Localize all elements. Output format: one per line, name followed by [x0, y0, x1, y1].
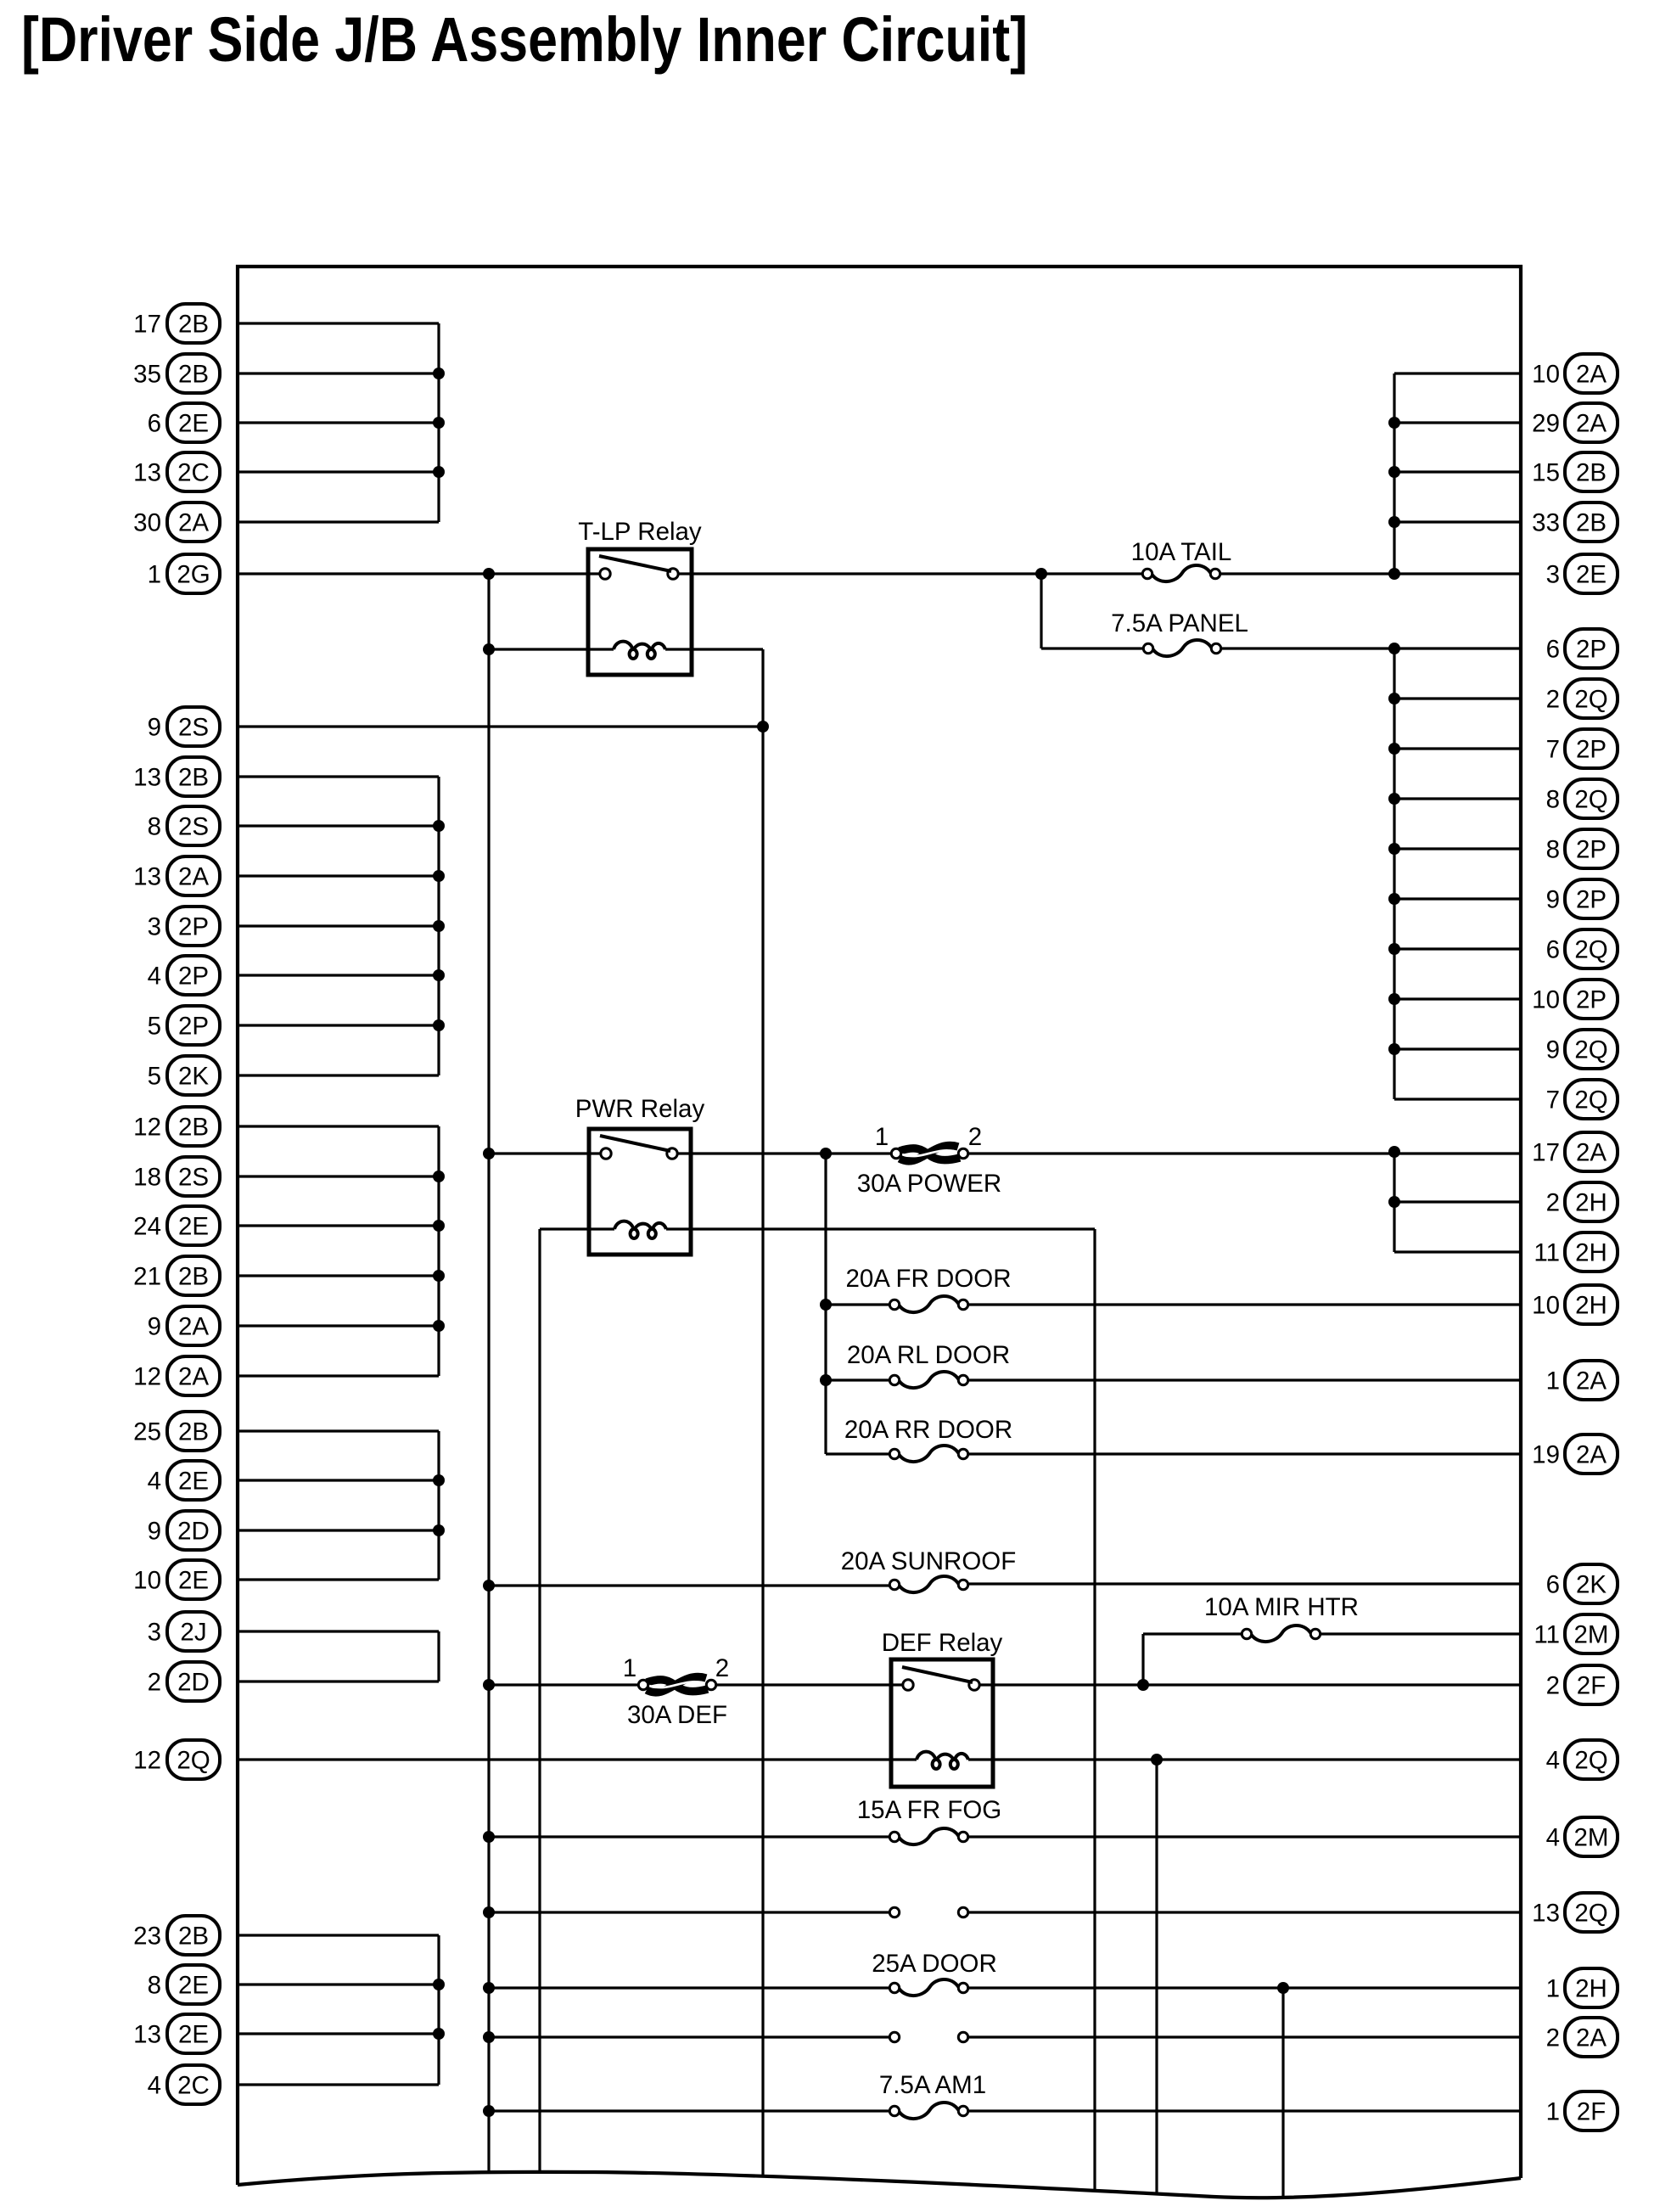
relay PWR Relay	[575, 1095, 705, 1255]
svg-text:9: 9	[1546, 1036, 1560, 1064]
svg-text:13: 13	[133, 863, 161, 891]
wire group F pin rows	[238, 1935, 439, 2085]
wire 25A DOOR row right	[968, 1986, 1521, 1989]
svg-text:8: 8	[148, 813, 161, 841]
svg-text:9: 9	[148, 1518, 161, 1546]
svg-text:2P: 2P	[178, 963, 209, 991]
node group A bus junctions	[433, 368, 445, 478]
svg-text:2H: 2H	[1575, 1292, 1607, 1320]
node junction MIR HTR tap	[1137, 1679, 1149, 1691]
svg-text:1: 1	[623, 1654, 636, 1682]
svg-text:12: 12	[133, 1363, 161, 1391]
svg-text:15A FR FOG: 15A FR FOG	[857, 1796, 1002, 1824]
svg-text:2A: 2A	[1576, 2024, 1607, 2052]
svg-text:6: 6	[1546, 936, 1560, 964]
fuse 20A RR DOOR	[844, 1416, 1012, 1462]
svg-text:2S: 2S	[178, 813, 209, 841]
wire T-LP relay output to TAIL fuse	[678, 572, 1142, 575]
node group B bus junctions	[433, 820, 445, 1031]
wire group C bus	[437, 1126, 440, 1376]
node 30 (2A) left pin	[133, 502, 220, 542]
svg-text:2Q: 2Q	[1574, 1036, 1607, 1064]
node 8 (2P) right pin	[1546, 829, 1618, 868]
svg-text:33: 33	[1532, 509, 1560, 537]
svg-text:2P: 2P	[1576, 636, 1607, 664]
svg-text:2Q: 2Q	[1574, 936, 1607, 964]
node junction VB1 FR FOG	[483, 1831, 495, 1843]
svg-text:17: 17	[133, 311, 161, 339]
node 24 (2E) left pin	[133, 1206, 220, 1245]
svg-text:2A: 2A	[178, 863, 209, 891]
svg-text:2Q: 2Q	[1574, 786, 1607, 814]
wire FR FOG row right	[968, 1835, 1521, 1838]
svg-text:30: 30	[133, 509, 161, 537]
fuse 7.5A AM1	[879, 2071, 986, 2119]
node junction 9 (2S) to VB3	[757, 721, 769, 733]
node 8 (2Q) right pin	[1546, 779, 1618, 818]
node junction T-LP coil tap (x576 y765)	[483, 643, 495, 655]
svg-text:1: 1	[1546, 1975, 1560, 2003]
svg-text:2C: 2C	[177, 459, 210, 487]
node 7 (2P) right pin	[1546, 729, 1618, 768]
wire DEF coil to 4 (2Q)	[968, 1758, 1521, 1760]
node junction PANEL right bus	[1388, 643, 1400, 654]
node 4 (2C) left pin	[148, 2065, 220, 2104]
node 35 (2B) left pin	[133, 354, 220, 393]
svg-text:2S: 2S	[178, 1164, 209, 1192]
node 17 (2A) right pin	[1532, 1132, 1618, 1171]
node 13 (2E) left pin	[133, 2014, 220, 2053]
svg-text:4: 4	[148, 1468, 161, 1496]
svg-text:2A: 2A	[1576, 1441, 1607, 1469]
wire 12 (2Q) row to DEF coil	[238, 1758, 917, 1760]
node 11 (2H) right pin	[1534, 1232, 1618, 1272]
svg-text:2B: 2B	[178, 764, 209, 792]
wire FR DOOR row left	[826, 1303, 889, 1305]
node 1 (2G) left pin	[148, 554, 220, 593]
svg-text:11: 11	[1534, 1239, 1560, 1267]
node group C bus junctions	[433, 1171, 445, 1332]
wire FR DOOR row right	[968, 1303, 1521, 1305]
svg-text:5: 5	[148, 1013, 161, 1041]
wire bus VB1 (x576)	[487, 574, 490, 2174]
svg-text:30A POWER: 30A POWER	[857, 1170, 1002, 1198]
wire 30A DEF link to DEF relay	[716, 1683, 903, 1686]
wire SUNROOF row right	[968, 1582, 1521, 1585]
svg-text:4: 4	[1546, 1824, 1560, 1852]
svg-text:21: 21	[133, 1263, 161, 1291]
node 1 (2F) right pin	[1546, 2091, 1618, 2131]
fusible link 30A DEF	[623, 1654, 729, 1729]
svg-text:2C: 2C	[177, 2072, 210, 2100]
node 7 (2Q) right pin	[1546, 1080, 1618, 1119]
svg-text:13: 13	[133, 459, 161, 487]
node junction TAIL right bus	[1388, 568, 1400, 580]
svg-text:3: 3	[148, 913, 161, 941]
node group D bus junctions	[433, 1474, 445, 1536]
node right bus B junctions	[1388, 693, 1400, 1055]
wire group E pin rows	[238, 1631, 439, 1681]
node 25 (2B) left pin	[133, 1412, 220, 1451]
wire 9 (2S) row	[238, 725, 763, 727]
node right bus A junctions	[1388, 417, 1400, 528]
wire right bus B	[1393, 648, 1395, 1099]
node 21 (2B) left pin	[133, 1256, 220, 1295]
wire bus VB3 (x899)	[761, 649, 764, 2176]
svg-text:1: 1	[875, 1123, 889, 1151]
node junction VB1 top (x576 y676)	[483, 568, 495, 580]
node 10 (2P) right pin	[1532, 980, 1618, 1019]
svg-text:2: 2	[1546, 2024, 1560, 2052]
svg-text:2P: 2P	[178, 913, 209, 941]
wire bus VB7 (x1512)	[1281, 1988, 1284, 2198]
node 33 (2B) right pin	[1532, 502, 1618, 542]
svg-text:4: 4	[148, 963, 161, 991]
svg-text:20A SUNROOF: 20A SUNROOF	[841, 1547, 1017, 1575]
node 9 (2D) left pin	[148, 1511, 220, 1550]
node junction door-bus tap (x973)	[820, 1148, 832, 1159]
wire right rows group A	[1394, 373, 1521, 522]
svg-text:2A: 2A	[1576, 361, 1607, 389]
svg-text:12: 12	[133, 1114, 161, 1142]
node 13 (2B) left pin	[133, 757, 220, 796]
svg-text:15: 15	[1532, 459, 1560, 487]
svg-text:2: 2	[968, 1123, 982, 1151]
svg-text:17: 17	[1532, 1139, 1560, 1167]
svg-text:25A DOOR: 25A DOOR	[872, 1950, 997, 1978]
svg-text:2D: 2D	[177, 1669, 210, 1697]
svg-text:2Q: 2Q	[1574, 1747, 1607, 1775]
node 23 (2B) left pin	[133, 1916, 220, 1955]
svg-text:2M: 2M	[1574, 1824, 1609, 1852]
svg-text:[Driver Side J/B Assembly Inne: [Driver Side J/B Assembly Inner Circuit]	[21, 4, 1028, 75]
node junction VB1 DEF row	[483, 1679, 495, 1691]
wire PWR coil left to VB2	[540, 1227, 614, 1230]
svg-text:10: 10	[1532, 361, 1560, 389]
svg-text:20A RL DOOR: 20A RL DOOR	[847, 1341, 1010, 1369]
wire T-LP coil left	[489, 648, 614, 650]
svg-text:1: 1	[1546, 2098, 1560, 2126]
node 19 (2A) right pin	[1532, 1434, 1618, 1474]
node 29 (2A) right pin	[1532, 403, 1618, 442]
node 13 (2C) left pin	[133, 452, 220, 491]
svg-text:13: 13	[133, 2021, 161, 2049]
wire right bus C	[1393, 1152, 1395, 1252]
wire right bus A	[1393, 373, 1395, 574]
svg-text:20A FR DOOR: 20A FR DOOR	[845, 1265, 1011, 1293]
node junction VB1 sunroof	[483, 1580, 495, 1592]
wire RR DOOR row right	[968, 1452, 1521, 1455]
svg-text:10: 10	[133, 1567, 161, 1595]
node 13 (2A) left pin	[133, 856, 220, 895]
svg-text:3: 3	[1546, 561, 1560, 589]
wire RL DOOR row right	[968, 1378, 1521, 1381]
svg-text:11: 11	[1534, 1621, 1560, 1649]
fuse 15A FR FOG	[857, 1796, 1002, 1844]
wire RR DOOR row left	[826, 1452, 889, 1455]
wire PANEL row right	[1221, 647, 1521, 649]
node 8 (2S) left pin	[148, 806, 220, 845]
node 3 (2J) left pin	[148, 1612, 220, 1651]
svg-text:2K: 2K	[1576, 1571, 1607, 1599]
node 11 (2M) right pin	[1534, 1614, 1618, 1653]
svg-text:7.5A AM1: 7.5A AM1	[879, 2071, 986, 2099]
node 2 (2A) right pin	[1546, 2018, 1618, 2057]
wire DEF row to 30A DEF link	[489, 1683, 638, 1686]
svg-text:35: 35	[133, 361, 161, 389]
svg-text:24: 24	[133, 1213, 161, 1241]
svg-text:2B: 2B	[178, 1263, 209, 1291]
node door bus junctions	[820, 1299, 832, 1386]
svg-text:2B: 2B	[178, 1114, 209, 1142]
wire right rows group B	[1394, 699, 1521, 1099]
fuse 20A FR DOOR	[845, 1265, 1011, 1312]
svg-text:6: 6	[1546, 1571, 1560, 1599]
wire DEF relay output to 2 (2F)	[979, 1683, 1521, 1686]
svg-text:2E: 2E	[178, 1972, 209, 2000]
svg-text:2P: 2P	[1576, 736, 1607, 764]
svg-text:2B: 2B	[178, 1923, 209, 1951]
svg-text:2A: 2A	[178, 509, 209, 537]
node 4 (2E) left pin	[148, 1461, 220, 1500]
node 12 (2Q) left pin	[133, 1740, 220, 1779]
svg-text:2Q: 2Q	[1574, 1900, 1607, 1928]
svg-text:20A RR DOOR: 20A RR DOOR	[844, 1416, 1012, 1444]
fuse 20A SUNROOF	[841, 1547, 1017, 1592]
svg-text:10A TAIL: 10A TAIL	[1131, 538, 1232, 566]
node 17 (2B) left pin	[133, 304, 220, 343]
svg-text:2B: 2B	[1576, 509, 1607, 537]
svg-text:1: 1	[1546, 1367, 1560, 1395]
svg-text:2: 2	[1546, 1189, 1560, 1217]
svg-text:2E: 2E	[178, 1468, 209, 1496]
node junction VB6 top	[1151, 1754, 1163, 1766]
svg-text:2P: 2P	[1576, 836, 1607, 864]
svg-text:9: 9	[1546, 886, 1560, 914]
wire 7.5A AM1 row right	[968, 2109, 1521, 2112]
node 6 (2E) left pin	[148, 403, 220, 442]
node 4 (2P) left pin	[148, 956, 220, 995]
node 6 (2K) right pin	[1546, 1564, 1618, 1603]
node 2 (2F) right pin	[1546, 1665, 1618, 1704]
svg-text:2E: 2E	[178, 1567, 209, 1595]
node 15 (2B) right pin	[1532, 452, 1618, 491]
wire MIR HTR row left	[1143, 1632, 1242, 1635]
svg-text:T-LP Relay: T-LP Relay	[578, 518, 702, 546]
node junction POWER right bus	[1388, 1146, 1400, 1158]
svg-text:2P: 2P	[1576, 886, 1607, 914]
node junction VB1 AM1 row	[483, 2105, 495, 2117]
svg-text:18: 18	[133, 1164, 161, 1192]
svg-text:1: 1	[148, 561, 161, 589]
svg-text:2E: 2E	[178, 2021, 209, 2049]
svg-text:8: 8	[148, 1972, 161, 2000]
svg-text:2Q: 2Q	[177, 1747, 210, 1775]
wire group C pin rows	[238, 1126, 439, 1376]
fusible link 30A POWER	[857, 1123, 1002, 1198]
svg-text:5: 5	[148, 1063, 161, 1091]
wire bus VB2 (x636)	[538, 1229, 541, 2173]
node 1 (2A) right pin	[1546, 1361, 1618, 1400]
svg-text:2B: 2B	[178, 361, 209, 389]
svg-text:2Q: 2Q	[1574, 686, 1607, 714]
junction box outline (J/B boundary)	[238, 267, 1521, 2185]
svg-text:2: 2	[148, 1669, 161, 1697]
svg-text:10: 10	[1532, 986, 1560, 1014]
wire group D pin rows	[238, 1431, 439, 1580]
wire PWR relay output to 30A POWER link	[677, 1152, 891, 1154]
wire 2 (2A) spare row right	[968, 2035, 1521, 2038]
wire SUNROOF row left	[489, 1584, 889, 1586]
wire 13 (2Q) spare row	[489, 1911, 889, 1913]
node junction TAIL tap (x1227)	[1035, 568, 1047, 580]
svg-text:2A: 2A	[1576, 1367, 1607, 1395]
svg-text:2M: 2M	[1574, 1621, 1609, 1649]
svg-text:19: 19	[1532, 1441, 1560, 1469]
svg-text:2H: 2H	[1575, 1239, 1607, 1267]
node 9 (2P) right pin	[1546, 879, 1618, 918]
wire 13 (2Q) spare row right	[968, 1911, 1521, 1913]
svg-text:DEF Relay: DEF Relay	[882, 1629, 1003, 1657]
node 13 (2Q) right pin	[1532, 1893, 1618, 1932]
node 10 (2E) left pin	[133, 1560, 220, 1599]
svg-text:2E: 2E	[1576, 561, 1607, 589]
node 5 (2P) left pin	[148, 1006, 220, 1045]
node 2 (2D) left pin	[148, 1662, 220, 1701]
wire 25A DOOR row left	[489, 1986, 889, 1989]
node junction VB1 spare row 2	[483, 2031, 495, 2043]
fuse 10A MIR HTR	[1204, 1593, 1359, 1642]
node right bus C junction	[1388, 1196, 1400, 1208]
svg-text:2: 2	[1546, 1672, 1560, 1700]
node 9 (2A) left pin	[148, 1306, 220, 1345]
wire PANEL drop (x1227)	[1040, 574, 1042, 648]
wire 7.5A AM1 row left	[489, 2109, 889, 2112]
node 4 (2Q) right pin	[1546, 1740, 1618, 1779]
fuse 20A RL DOOR	[847, 1341, 1010, 1388]
wire door bus (x973)	[824, 1154, 827, 1454]
wavy break line (bottom of J/B)	[238, 2172, 1521, 2198]
svg-text:6: 6	[1546, 636, 1560, 664]
svg-text:4: 4	[1546, 1747, 1560, 1775]
fuse 25A DOOR	[872, 1950, 997, 1996]
node 1 (2H) right pin	[1546, 1968, 1618, 2007]
node 5 (2K) left pin	[148, 1056, 220, 1095]
wire group A pin rows	[238, 323, 439, 522]
wire 30A POWER link to 17 (2A)	[968, 1152, 1521, 1154]
svg-text:10A MIR HTR: 10A MIR HTR	[1204, 1593, 1359, 1621]
wire group D bus	[437, 1431, 440, 1580]
node 3 (2P) left pin	[148, 907, 220, 946]
svg-text:13: 13	[133, 764, 161, 792]
svg-text:2: 2	[715, 1654, 729, 1682]
node junction VB7 top	[1277, 1982, 1289, 1994]
wire bus VB6 (x1363)	[1155, 1760, 1158, 2194]
svg-text:2D: 2D	[177, 1518, 210, 1546]
svg-text:2H: 2H	[1575, 1189, 1607, 1217]
wire bus VB5 (x1290)	[1093, 1229, 1096, 2191]
svg-text:2A: 2A	[1576, 410, 1607, 438]
fuse 10A TAIL	[1131, 538, 1232, 581]
svg-text:23: 23	[133, 1923, 161, 1951]
svg-text:7: 7	[1546, 1086, 1560, 1114]
svg-text:2A: 2A	[1576, 1139, 1607, 1167]
svg-text:29: 29	[1532, 410, 1560, 438]
wire 1 (2G) row into T-LP relay	[238, 572, 600, 575]
svg-text:8: 8	[1546, 786, 1560, 814]
wire MIR HTR riser	[1141, 1634, 1144, 1685]
svg-text:2P: 2P	[1576, 986, 1607, 1014]
node group F bus junctions	[433, 1979, 445, 2040]
svg-text:2S: 2S	[178, 714, 209, 742]
svg-text:25: 25	[133, 1418, 161, 1446]
svg-text:2A: 2A	[178, 1313, 209, 1341]
wire right rows group C	[1394, 1202, 1521, 1252]
svg-text:9: 9	[148, 1313, 161, 1341]
svg-text:2F: 2F	[1577, 2098, 1606, 2126]
wire PWR coil right to VB5	[666, 1227, 1095, 1230]
node 8 (2E) left pin	[148, 1965, 220, 2004]
svg-text:2: 2	[1546, 686, 1560, 714]
svg-text:2J: 2J	[180, 1619, 206, 1647]
svg-text:2E: 2E	[178, 1213, 209, 1241]
node 10 (2A) right pin	[1532, 354, 1618, 393]
svg-text:2K: 2K	[178, 1063, 209, 1091]
relay T-LP Relay	[578, 518, 702, 675]
svg-text:9: 9	[148, 714, 161, 742]
node 12 (2B) left pin	[133, 1107, 220, 1146]
wire TAIL fuse to 3 (2E)	[1220, 572, 1521, 575]
svg-text:6: 6	[148, 410, 161, 438]
wire group E bus	[437, 1631, 440, 1681]
node 18 (2S) left pin	[133, 1157, 220, 1196]
node 4 (2M) right pin	[1546, 1817, 1618, 1856]
fuse spare slot (2 2A row, open)	[889, 2032, 967, 2041]
node 9 (2S) left pin	[148, 707, 220, 746]
svg-text:4: 4	[148, 2072, 161, 2100]
svg-text:2B: 2B	[178, 1418, 209, 1446]
wire 2 (2A) spare row	[489, 2035, 889, 2038]
svg-text:7.5A PANEL: 7.5A PANEL	[1111, 609, 1248, 637]
node 6 (2P) right pin	[1546, 629, 1618, 668]
node 2 (2H) right pin	[1546, 1182, 1618, 1221]
svg-text:2E: 2E	[178, 410, 209, 438]
wire PANEL row left	[1041, 647, 1143, 649]
node 12 (2A) left pin	[133, 1356, 220, 1395]
wire FR FOG row left	[489, 1835, 889, 1838]
wire group B pin rows	[238, 777, 439, 1075]
wire group B bus	[437, 777, 440, 1075]
fuse 7.5A PANEL	[1111, 609, 1248, 656]
svg-text:10: 10	[1532, 1292, 1560, 1320]
wire T-LP coil right to x899	[665, 648, 763, 650]
svg-text:30A DEF: 30A DEF	[627, 1701, 727, 1729]
svg-text:3: 3	[148, 1619, 161, 1647]
svg-text:7: 7	[1546, 736, 1560, 764]
relay DEF Relay	[882, 1629, 1003, 1787]
node junction VB1 spare row	[483, 1906, 495, 1918]
wire RL DOOR row left	[826, 1378, 889, 1381]
svg-text:8: 8	[1546, 836, 1560, 864]
node 6 (2Q) right pin	[1546, 929, 1618, 968]
svg-text:2F: 2F	[1577, 1672, 1606, 1700]
node 3 (2E) right pin	[1546, 554, 1618, 593]
svg-text:13: 13	[1532, 1900, 1560, 1928]
wire group F bus	[437, 1935, 440, 2085]
svg-text:12: 12	[133, 1747, 161, 1775]
wire group A bus	[437, 323, 440, 522]
svg-text:2B: 2B	[1576, 459, 1607, 487]
